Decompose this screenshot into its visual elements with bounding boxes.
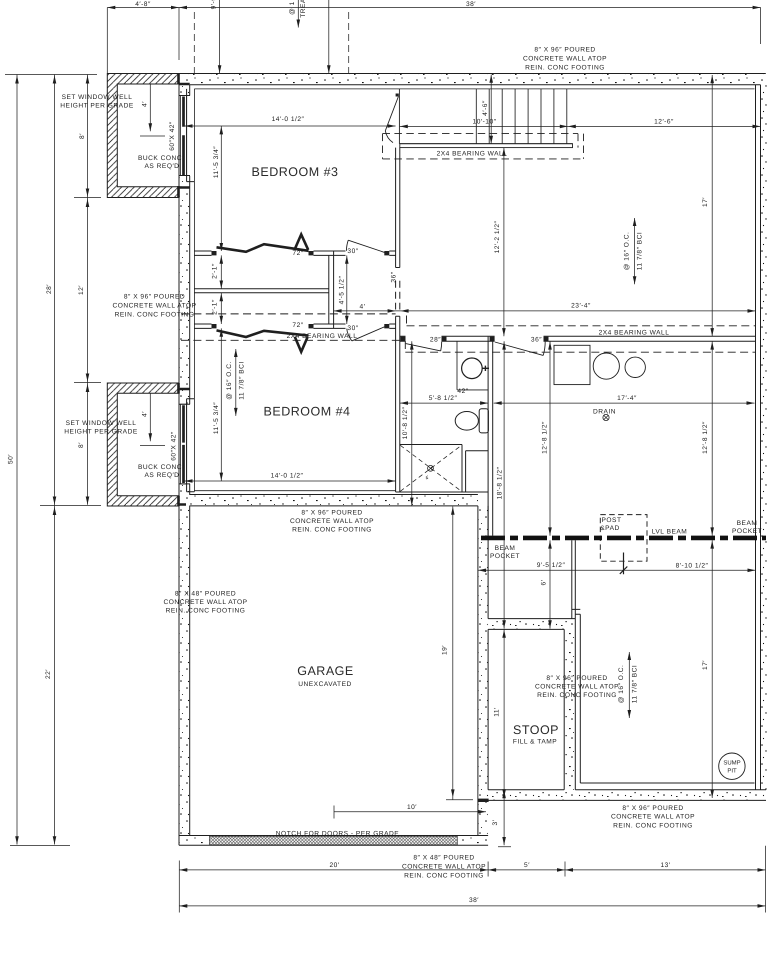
svg-text:POST: POST — [602, 517, 622, 524]
svg-text:12′-8 1/2″: 12′-8 1/2″ — [542, 421, 549, 454]
wall top exterior 8x96 poured concrete — [179, 74, 766, 85]
svg-text:9′-9: 9′-9 — [211, 0, 218, 9]
svg-text:11 7/8″ BCI: 11 7/8″ BCI — [239, 361, 246, 400]
svg-text:11′-5 3/4″: 11′-5 3/4″ — [213, 402, 220, 434]
window well 1 hatched (set window well height per grade) — [107, 74, 179, 198]
wall laundry north (with 28in and 36in doors) — [400, 336, 756, 341]
dim 14-0.5 bedroom4 — [185, 480, 396, 482]
svg-text:4′: 4′ — [142, 101, 149, 107]
svg-text:4′-8″: 4′-8″ — [135, 1, 151, 8]
svg-text:13′: 13′ — [660, 862, 670, 869]
wall closets east (pair) — [329, 251, 334, 328]
svg-text:AS REQ′D: AS REQ′D — [145, 472, 180, 479]
svg-text:23′-4″: 23′-4″ — [571, 303, 591, 310]
dashed 2x4 bearing wall outline at stairs — [383, 134, 584, 159]
svg-text:REIN. CONC FOOTING: REIN. CONC FOOTING — [525, 65, 605, 72]
dim 14-0.5 bedroom3 / 10-10 / 12-6 — [185, 125, 761, 127]
lvl beam (heavy center-line) — [481, 536, 766, 541]
svg-text:4′: 4′ — [360, 304, 366, 311]
svg-text:BEDROOM #3: BEDROOM #3 — [252, 165, 339, 179]
svg-text:LVL BEAM: LVL BEAM — [652, 529, 688, 536]
dashed bearing wall bedrooms lower line — [181, 340, 756, 352]
svg-text:HEIGHT PER GRADE: HEIGHT PER GRADE — [60, 103, 134, 110]
svg-text:3′: 3′ — [492, 819, 499, 825]
svg-text:CONCRETE WALL ATOP: CONCRETE WALL ATOP — [611, 814, 695, 821]
buck corner marks window well 1 — [177, 74, 180, 198]
svg-text:19′: 19′ — [442, 645, 449, 655]
wall right exterior 8x96 poured concrete — [756, 85, 768, 801]
svg-text:10′-10″: 10′-10″ — [473, 119, 497, 126]
svg-text:30″: 30″ — [347, 325, 358, 332]
svg-text:11′-5 3/4″: 11′-5 3/4″ — [213, 146, 220, 178]
interior furring lines bedrooms — [194, 89, 754, 492]
svg-text:REIN. CONC FOOTING: REIN. CONC FOOTING — [537, 692, 617, 699]
window 1 60x42 buck conc — [179, 89, 194, 182]
door bedroom4 (30in) swing — [347, 327, 385, 341]
water heater — [625, 357, 645, 377]
svg-text:BEAM: BEAM — [737, 520, 758, 527]
dim 4-6 stairs — [490, 75, 492, 144]
svg-text:SET WINDOW WELL: SET WINDOW WELL — [62, 94, 133, 101]
svg-text:12′-6″: 12′-6″ — [654, 119, 674, 126]
svg-text:30″: 30″ — [347, 248, 358, 255]
svg-text:PIT: PIT — [727, 768, 737, 775]
svg-text:BUCK CONC: BUCK CONC — [138, 464, 182, 471]
dim 10-8.5 bath — [411, 341, 413, 506]
svg-text:5′: 5′ — [524, 862, 530, 869]
joist arrow rec room north — [634, 218, 636, 284]
black junction mark garage-stoop — [478, 799, 489, 802]
svg-text:@ 1: @ 1 — [289, 1, 296, 15]
svg-text:28″: 28″ — [430, 337, 441, 344]
svg-text:12′-8 1/2″: 12′-8 1/2″ — [702, 421, 709, 454]
floor drain symbol — [603, 414, 609, 420]
svg-text:6′: 6′ — [541, 579, 548, 585]
svg-text:GARAGE: GARAGE — [297, 664, 354, 678]
svg-text:CONCRETE WALL ATOP: CONCRETE WALL ATOP — [535, 684, 619, 691]
stair treads — [476, 89, 567, 144]
shower drain — [428, 465, 434, 471]
svg-text:60″X 42″: 60″X 42″ — [169, 121, 176, 151]
wall stoop east — [564, 619, 575, 790]
wall garage north (under bedroom4/bath) — [180, 495, 478, 506]
svg-text:@ 16″ O.C.: @ 16″ O.C. — [624, 232, 631, 271]
svg-text:CONCRETE WALL ATOP: CONCRETE WALL ATOP — [402, 864, 486, 871]
linen closet — [466, 450, 489, 452]
svg-text:38′: 38′ — [469, 897, 479, 904]
dim 5-8.5 and 17-4 — [400, 402, 755, 404]
svg-text:DRAIN: DRAIN — [593, 409, 616, 416]
svg-text:28′: 28′ — [46, 284, 53, 294]
svg-text:&PAD: &PAD — [600, 525, 619, 532]
window well 2 hatched — [107, 383, 179, 506]
svg-text:2′-1″: 2′-1″ — [212, 263, 219, 279]
sump pit — [719, 753, 745, 779]
wall left exterior 8x96 poured concrete — [179, 74, 190, 846]
svg-text:SUMP: SUMP — [723, 760, 740, 767]
svg-text:@ 16″ O.C.: @ 16″ O.C. — [226, 361, 233, 400]
svg-text:8″ X 96″ POURED: 8″ X 96″ POURED — [534, 47, 595, 54]
svg-text:5′-8 1/2″: 5′-8 1/2″ — [429, 395, 458, 402]
svg-text:REIN. CONC FOOTING: REIN. CONC FOOTING — [613, 823, 693, 830]
bedroom4 floor furring line — [194, 490, 395, 492]
bifold doors closet 1 (72in) — [217, 244, 309, 252]
wall garage south with door notch — [179, 836, 488, 846]
svg-text:12′-2 1/2″: 12′-2 1/2″ — [494, 220, 501, 253]
svg-text:2X4 BEARING WALL: 2X4 BEARING WALL — [599, 330, 670, 337]
dim 2-1 closets — [220, 255, 222, 324]
svg-text:POCKET: POCKET — [490, 553, 520, 560]
door bath 28in swing — [406, 342, 442, 351]
svg-text:TREA: TREA — [300, 0, 307, 18]
post center mark — [620, 553, 628, 575]
toilet — [455, 412, 478, 431]
dim 23-4 and hall 4ft — [334, 310, 756, 312]
window 2 60x42 buck conc — [179, 399, 194, 492]
bifold fold symbol bedroom3 — [295, 234, 309, 249]
svg-text:8′: 8′ — [79, 133, 86, 139]
wall bedroom4 north / closet2 south — [194, 324, 395, 328]
jamb marks bedroom3 south wall — [212, 251, 390, 255]
post and pad dashed box — [600, 515, 647, 562]
dim ticks left — [5, 75, 101, 846]
svg-text:10′-8 1/2″: 10′-8 1/2″ — [402, 406, 409, 439]
svg-text:8″ X 96″ POURED: 8″ X 96″ POURED — [622, 805, 683, 812]
svg-text:REIN. CONC FOOTING: REIN. CONC FOOTING — [115, 312, 195, 319]
dim 11-5.75 bedroom4 — [220, 328, 222, 481]
window well 4ft dims — [140, 85, 165, 446]
left dim chain 28ft 22ft — [54, 75, 56, 845]
left dim chain 50ft — [16, 75, 18, 845]
svg-text:11 7/8″ BCI: 11 7/8″ BCI — [637, 232, 644, 271]
svg-text:8″ X 96″ POURED: 8″ X 96″ POURED — [124, 294, 185, 301]
svg-text:11 7/8″ BCI: 11 7/8″ BCI — [632, 665, 639, 704]
svg-text:8′: 8′ — [78, 442, 85, 448]
wall bedroom3 south (with closet + door openings) — [194, 251, 395, 255]
svg-text:POCKET: POCKET — [732, 528, 762, 535]
svg-text:50′: 50′ — [8, 454, 15, 464]
bifold doors closet 2 (72in) — [217, 330, 309, 337]
arrowheads dims — [107, 6, 115, 10]
svg-text:BEDROOM #4: BEDROOM #4 — [264, 405, 351, 419]
svg-text:AS REQ′D: AS REQ′D — [145, 163, 180, 170]
svg-text:4′: 4′ — [142, 411, 149, 417]
wall stoop north — [488, 619, 575, 630]
dim 11-5.75 bedroom3 — [220, 126, 222, 251]
dim 12-8.5 and 6ft center — [549, 341, 551, 628]
svg-text:11′: 11′ — [494, 707, 501, 717]
dim 17ft right top — [711, 75, 713, 336]
jamb marks bedroom4 north wall — [212, 324, 390, 328]
svg-text:17′-4″: 17′-4″ — [617, 395, 637, 402]
dim 9-5.5 and 8-10.5 — [478, 569, 755, 571]
svg-text:36″: 36″ — [391, 271, 398, 282]
svg-text:BEAM: BEAM — [495, 545, 516, 552]
dim line 9-9 leader (cut at top) — [220, 0, 329, 73]
left dim chain 8-12-8 — [87, 75, 89, 505]
svg-text:17′: 17′ — [702, 660, 709, 670]
dim 18-8.5 / 11ft / 3ft chain — [498, 341, 511, 847]
wall garage east — [478, 506, 488, 845]
svg-text:REIN. CONC FOOTING: REIN. CONC FOOTING — [404, 873, 484, 880]
svg-text:10′: 10′ — [407, 804, 417, 811]
door stair-bedroom3 swing — [385, 97, 398, 143]
dim bottom 38 — [179, 846, 765, 913]
svg-text:38′: 38′ — [466, 1, 476, 8]
jamb marks laundry north wall — [400, 337, 548, 341]
svg-text:22′: 22′ — [45, 669, 52, 679]
svg-text:60″X 42″: 60″X 42″ — [171, 431, 178, 461]
svg-text:8″ X 48″ POURED: 8″ X 48″ POURED — [413, 855, 474, 862]
dim 12-2.5 — [503, 148, 505, 337]
door rec room 36in swing — [495, 342, 545, 356]
dim 19ft garage — [446, 507, 473, 800]
dim bottom 20-5-13 — [179, 862, 765, 877]
svg-text:72″: 72″ — [292, 322, 303, 329]
svg-text:4′-6″: 4′-6″ — [482, 100, 489, 116]
stairwell edge — [399, 89, 572, 144]
door bedroom3 (30in) swing — [347, 240, 385, 252]
dim 4-5.5 hall — [346, 255, 348, 324]
dashed bearing wall bedrooms upper line — [181, 314, 756, 326]
svg-text:CONCRETE WALL ATOP: CONCRETE WALL ATOP — [163, 599, 247, 606]
svg-text:SET WINDOW WELL: SET WINDOW WELL — [66, 420, 137, 427]
dim 10ft garage door — [334, 806, 486, 819]
svg-text:2X4 BEARING WALL: 2X4 BEARING WALL — [437, 151, 508, 158]
bifold fold symbol bedroom4 — [295, 337, 308, 352]
svg-text:18′-8 1/2″: 18′-8 1/2″ — [497, 466, 504, 499]
svg-text:BUCK CONC: BUCK CONC — [138, 155, 182, 162]
svg-text:8″ X 96″ POURED: 8″ X 96″ POURED — [546, 675, 607, 682]
svg-text:42″: 42″ — [457, 388, 468, 395]
svg-text:17′: 17′ — [702, 197, 709, 207]
joist arrow bedroom4 — [235, 349, 237, 416]
svg-text:8″ X 48″ POURED: 8″ X 48″ POURED — [175, 591, 236, 598]
wall hall/bath west (pair with 36in cased opening) — [396, 148, 400, 492]
svg-text:CONCRETE WALL ATOP: CONCRETE WALL ATOP — [112, 303, 196, 310]
door jamb stair to bedroom3 — [396, 94, 399, 97]
svg-text:REIN. CONC FOOTING: REIN. CONC FOOTING — [292, 527, 372, 534]
sink — [462, 358, 483, 379]
svg-text:4′: 4′ — [424, 475, 431, 482]
shower 4ft — [396, 445, 489, 493]
vanity counter 42in — [457, 341, 488, 390]
dashed extension lines at top — [194, 12, 348, 74]
svg-text:72″: 72″ — [292, 250, 303, 257]
svg-text:9′-5 1/2″: 9′-5 1/2″ — [537, 562, 566, 569]
wall south of stoop and rec room 8x96 — [478, 783, 767, 800]
svg-text:NOTCH FOR DOORS - PER GRADE: NOTCH FOR DOORS - PER GRADE — [276, 831, 400, 838]
laundry tub large — [593, 353, 619, 379]
svg-text:2X4 BEARING WALL: 2X4 BEARING WALL — [287, 333, 358, 340]
svg-text:@ 16″ O.C.: @ 16″ O.C. — [618, 665, 625, 704]
svg-text:12′: 12′ — [78, 285, 85, 295]
dim line top 4ft8 and 38ft — [107, 8, 760, 74]
svg-text:8′-10 1/2″: 8′-10 1/2″ — [676, 563, 709, 570]
svg-text:2′-1″: 2′-1″ — [212, 299, 219, 315]
wall between closets — [194, 289, 328, 293]
wall bath east / beam stub (pair) — [488, 337, 493, 536]
svg-text:FILL & TAMP: FILL & TAMP — [513, 739, 557, 746]
svg-text:CONCRETE WALL ATOP: CONCRETE WALL ATOP — [290, 518, 374, 525]
svg-text:14′-0 1/2″: 14′-0 1/2″ — [272, 116, 305, 123]
buck corner marks window well 2 — [177, 383, 180, 506]
wall rec room west below beam — [572, 540, 581, 783]
svg-text:CONCRETE WALL ATOP: CONCRETE WALL ATOP — [523, 56, 607, 63]
dim 12-8.5 and 17ft right — [711, 341, 713, 798]
furnace box — [554, 345, 590, 384]
svg-text:STOOP: STOOP — [513, 723, 559, 737]
2x4 bearing wall under stairs (solid) — [400, 144, 573, 148]
svg-text:36″: 36″ — [531, 337, 542, 344]
svg-text:4′-5 1/2″: 4′-5 1/2″ — [339, 276, 346, 305]
svg-text:20′: 20′ — [329, 862, 339, 869]
svg-text:HEIGHT PER GRADE: HEIGHT PER GRADE — [64, 429, 138, 436]
svg-text:14′-0 1/2″: 14′-0 1/2″ — [271, 473, 304, 480]
svg-text:8″ X 96″ POURED: 8″ X 96″ POURED — [301, 510, 362, 517]
svg-text:UNEXCAVATED: UNEXCAVATED — [298, 681, 352, 688]
svg-text:REIN. CONC FOOTING: REIN. CONC FOOTING — [166, 608, 246, 615]
joist arrow rec room south — [628, 652, 630, 718]
